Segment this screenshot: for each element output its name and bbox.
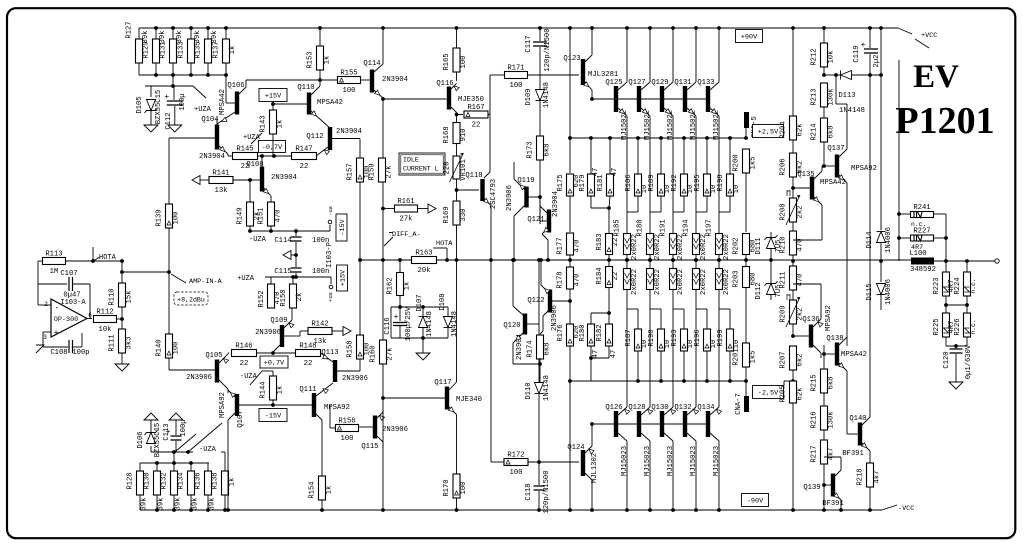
wire Q118 base [457,189,480,191]
svg-text:R172: R172 [507,452,524,460]
transistor Q121 2N3904 [547,210,551,233]
svg-text:R145: R145 [236,146,253,154]
svg-text:-ua: -ua [327,205,334,216]
svg-text:2x0R22: 2x0R22 [631,234,639,260]
svg-text:Q130: Q130 [651,404,668,412]
wire Q116 base [445,98,447,100]
wire driver bus bottom y381 [570,380,746,382]
svg-text:2x0R22: 2x0R22 [654,234,662,260]
wire Q117 collector [449,382,457,390]
resistor R193 10 [681,329,688,351]
svg-text:R146: R146 [235,343,252,351]
svg-text:R110: R110 [109,288,117,305]
resistor R170 100 [453,474,460,498]
resistor R113 1M [43,258,66,265]
wire bank bottom bus (-UZA) [140,462,209,464]
resistor R145 22 [233,153,258,160]
ground below clamp [422,338,424,349]
svg-text:R173: R173 [527,141,535,158]
node -15V box label [259,409,287,422]
svg-text:1k5: 1k5 [750,351,758,364]
resistor R155 100 [338,77,361,84]
svg-text:MJL1302: MJL1302 [591,453,599,483]
wire bank bottom bus [139,74,226,76]
svg-text:D109: D109 [525,88,533,105]
wire Q113 base [337,370,360,372]
resistor R192 10 [683,138,685,174]
svg-text:BF391: BF391 [842,450,864,458]
svg-text:R203: R203 [733,270,741,287]
svg-text:2x0R22: 2x0R22 [677,234,685,260]
capacitor C115 100n [295,255,297,267]
resistor R163 20k in rail [412,257,437,264]
wire Q115 base [359,426,374,428]
resistor R227 4R7 [899,237,910,239]
svg-text:R141: R141 [212,170,229,178]
resistor R195 10 [706,138,708,174]
svg-text:R178: R178 [557,271,565,288]
transistor Q120 2N3904 [523,314,527,335]
zener D112 7V5 [770,260,772,300]
svg-text:R143: R143 [260,115,268,132]
wire Q127 collector riser [641,82,650,90]
svg-text:1k: 1k [229,478,237,487]
resistor R181 47 [609,138,611,174]
resistor 2x0R22 lower bank [624,269,631,290]
resistor R189 10 [660,138,662,174]
svg-text:R241: R241 [913,204,930,212]
transistor Q132 MJ15023 [683,411,687,437]
resistor R134 [190,463,192,471]
resistor 2x0R22 lower bank [716,269,723,290]
svg-text:R195: R195 [694,174,702,191]
wire Q110 collector to node [311,86,320,95]
svg-text:15k: 15k [126,291,134,304]
svg-text:R209: R209 [780,305,788,322]
wire R186 staircase [637,196,639,212]
transistor Q114 2N3904 [370,70,374,93]
transistor Q137 MPSA92 [835,155,839,178]
wire Q122 collector [543,311,548,316]
wire Q125 emitter [618,108,627,116]
svg-text:R165: R165 [443,53,451,70]
svg-text:D106: D106 [137,431,145,448]
resistor R202 680 [743,234,750,255]
diode D108 1N4148 [447,307,449,316]
resistor R167 22 [455,113,459,117]
svg-text:R136: R136 [195,472,203,489]
wire Q140 collector [862,417,870,425]
svg-text:+: + [861,41,866,50]
transistor Q117 MJE340 [445,387,449,410]
wire Q139 base [822,483,826,487]
wire Q107 emitter [228,390,235,397]
svg-text:2N3904: 2N3904 [552,191,560,217]
svg-text:-15V: -15V [265,413,282,421]
transistor Q128 MJ15023 [637,411,641,437]
wire Q134 collector [710,433,719,441]
svg-text:R127: R127 [126,21,134,38]
transistor Q133 MJ15022 [706,86,710,112]
wire R112 to divider [117,318,123,320]
svg-text:R184: R184 [596,267,604,284]
wire driver column to -VCC rail [569,381,571,510]
transistor Q123 MJL3281 [581,59,585,85]
wire Q136 collector [813,345,821,353]
svg-text:R157: R157 [347,163,355,180]
wire Q120 collector [513,306,523,315]
wire Q122 emitter [543,287,548,292]
svg-text:R207: R207 [780,351,788,368]
wire Q128 collector [641,433,650,441]
svg-text:39k: 39k [175,498,183,511]
wire Q108 base [250,179,260,181]
wire Q107 collector [228,413,235,420]
svg-text:R210: R210 [780,236,788,253]
wire Q124 emitter [585,446,592,453]
svg-text:Q126: Q126 [605,404,622,412]
svg-text:BZX55C15: BZX55C15 [155,90,163,125]
svg-text:R177: R177 [557,237,565,254]
wire Q104 collector to Q106 emitter [216,118,218,125]
svg-text:1N4148: 1N4148 [426,311,434,337]
svg-text:MJ15023: MJ15023 [644,446,652,476]
svg-text:Q110: Q110 [297,84,314,92]
wire Q135 collector [814,171,822,179]
transistor Q113 2N3906 [333,360,337,382]
svg-text:D114: D114 [866,231,874,248]
wire Q111 base [273,404,312,406]
svg-text:1N4148: 1N4148 [543,82,551,108]
svg-text:R174: R174 [527,340,535,357]
wire Q117 emitter [449,407,457,415]
node IDLE CURRENT L box [399,153,445,175]
resistor R144 1k [262,370,273,372]
svg-text:39k: 39k [192,498,200,511]
zener D105 BZX55C15 [150,86,152,97]
wire Q105 collector [219,380,228,389]
svg-text:R213: R213 [811,88,819,105]
wire Q137 emitter [839,175,847,183]
svg-text:R147: R147 [295,146,312,154]
resistor R156 100 [329,405,331,428]
svg-text:2x0R22: 2x0R22 [723,269,731,295]
wire Q113 emitter from R148 [321,353,334,362]
svg-text:R183: R183 [596,233,604,250]
svg-text:0µ1/630V: 0µ1/630V [965,344,973,379]
resistor R135 [207,28,209,39]
wire Q137 collector [839,149,847,157]
svg-text:R218: R218 [857,468,865,485]
svg-text:DIFF_A-: DIFF_A- [392,231,421,239]
wire R199 staircase [729,309,731,329]
svg-text:2: 2 [44,301,48,308]
svg-text:Q137: Q137 [827,145,844,153]
svg-text:R226: R226 [954,318,962,335]
resistor R223 4R7 [943,272,950,296]
svg-text:100: 100 [460,56,468,69]
svg-text:R158: R158 [347,340,355,357]
transistor Q126 MJ15023 [614,411,618,437]
wire Q123 collector riser [585,55,592,62]
svg-text:-90V: -90V [747,498,764,506]
wire Q106 emitter diagonal [217,112,235,124]
wire Q108 collector [261,156,263,167]
svg-text:R200: R200 [733,154,741,171]
resistor R141 13k [192,176,200,185]
svg-text:1N4006: 1N4006 [885,227,893,253]
wire -UZA diagonal callout 2 [188,423,222,452]
resistor R180 47 [590,313,592,324]
svg-text:100µ: 100µ [179,93,187,110]
wire R192 staircase [683,196,685,212]
svg-text:Q118: Q118 [465,172,482,180]
svg-text:100n: 100n [312,268,329,276]
wire output branch nodes [944,259,948,263]
svg-text:22: 22 [304,360,313,368]
wire Q118 emitter [485,199,492,206]
svg-text:R155: R155 [340,70,357,78]
capacitor C113 100u [175,441,177,452]
wire Q114 collector riser [374,64,383,72]
svg-text:Q128: Q128 [628,404,645,412]
resistor R203 680 [745,260,747,267]
transistor Q118 2SC4793 [480,179,484,201]
wire R146 to R148 [257,352,297,354]
wire Q105 base [169,369,215,371]
wire Q115 to Q117 base [383,397,445,399]
svg-text:R128: R128 [127,472,135,489]
wire C107 to output node [89,284,91,319]
svg-text:R197: R197 [706,219,714,236]
wire Q130 collector [664,433,673,441]
svg-text:MJ15023: MJ15023 [690,446,698,476]
ground below R111 [121,353,123,360]
svg-text:MJ15023: MJ15023 [667,446,675,476]
node +UZA callout at -0,7V [251,133,262,144]
wire +UZA node [265,276,331,278]
svg-text:Q114: Q114 [363,60,380,68]
svg-text:R150: R150 [280,289,288,306]
svg-text:2x0R22: 2x0R22 [631,269,639,295]
resistor R142 13k [308,328,332,335]
resistor R214 6k8 [821,118,828,142]
transistor Q106 MPSA42 [235,92,239,115]
wire Q108 emitter [264,188,271,196]
wire bottom join [945,337,947,346]
resistor R140 100 [168,272,170,334]
wire Q135 emitter [814,197,822,205]
resistor R146 22 [232,350,257,357]
svg-text:62k: 62k [797,388,805,401]
svg-text:2N3904: 2N3904 [199,153,225,161]
svg-text:1N4148: 1N4148 [839,107,865,115]
wire Q138 collector [839,337,847,345]
svg-text:47: 47 [592,350,600,359]
svg-text:Q111: Q111 [299,386,316,394]
svg-text:Q140: Q140 [849,415,866,423]
resistor R143 1k [272,102,274,111]
wire R189 staircase [660,196,662,212]
svg-text:Q104: Q104 [201,116,218,124]
svg-text:220: 220 [444,162,452,175]
svg-text:R217: R217 [811,445,819,462]
ground below C112 [174,106,176,121]
svg-text:R160: R160 [370,345,378,362]
wire Q119 emitter [517,182,525,190]
wire feedback loop left [38,260,43,262]
resistor R110 15k [121,261,123,283]
transistor Q135 MPSA42 [810,177,814,200]
wire +VCC diagonal [898,28,912,34]
svg-text:R205: R205 [780,385,788,402]
resistor R128 [139,463,141,471]
wire Q133 collector riser [710,82,719,90]
svg-text:R144: R144 [260,381,268,398]
svg-text:13k: 13k [215,187,228,195]
node -90V box label [742,494,769,507]
wire Q122 base [552,300,570,302]
svg-text:Q107: Q107 [237,410,245,427]
svg-text:100: 100 [173,212,181,225]
resistor R154 1k [319,476,326,500]
svg-text:2k2: 2k2 [797,206,805,219]
svg-text:100p: 100p [72,349,89,357]
svg-text:Q123: Q123 [563,55,580,63]
wire R198 staircase [729,196,731,212]
svg-text:-0,7V: -0,7V [262,144,283,152]
resistor R150 2k [290,284,297,308]
svg-text:1k: 1k [277,386,285,395]
svg-text:47: 47 [610,350,618,359]
svg-text:R216: R216 [811,411,819,428]
resistor R213 130k [821,83,828,107]
svg-text:C118: C118 [525,483,533,500]
resistor R175 620 [569,138,571,173]
svg-text:Q109: Q109 [270,317,287,325]
svg-text:1k: 1k [324,56,332,65]
svg-text:Q116: Q116 [436,80,453,88]
resistor R201 1k5 [743,343,750,367]
trimmer VR101 220 [453,156,460,179]
svg-text:Q108: Q108 [246,161,263,169]
svg-text:R188: R188 [637,219,645,236]
resistor R171 100 [490,74,504,76]
wire Q111 emitter to Q113 collector [316,383,333,396]
svg-text:1N4148: 1N4148 [451,311,459,337]
svg-text:47: 47 [611,168,619,177]
svg-text:2x0R22: 2x0R22 [677,269,685,295]
chassis symbol [36,345,44,353]
ground above D106 [150,424,152,432]
svg-text:100µ/25V: 100µ/25V [405,306,413,341]
resistor R133 [190,28,192,39]
wire Q106 collector riser [239,87,246,94]
svg-text:R152: R152 [258,290,266,307]
capacitor C117 120p/N1500 [539,28,541,41]
svg-text:MPSA42: MPSA42 [317,99,343,107]
svg-text:R135: R135 [195,41,203,58]
svg-text:Q138: Q138 [826,335,843,343]
wire Q111 collector to R154 [316,414,322,420]
wire R145 to R147 [258,155,293,157]
svg-text:Q120: Q120 [503,322,520,330]
svg-text:C113: C113 [163,423,171,440]
wire clamp box left [390,307,392,338]
svg-text:D111: D111 [755,237,763,254]
wire Q126 emitter riser [618,407,627,415]
connector CNA-7 [744,396,749,412]
svg-text:6k8: 6k8 [544,343,552,356]
resistor R190 10 [658,329,665,351]
svg-text:Q134: Q134 [697,404,714,412]
diode D115 1N4006 [877,284,886,295]
svg-text:10: 10 [733,185,741,194]
svg-text:R194: R194 [683,219,691,236]
resistor R197 2x0R22 [716,234,723,255]
diode D113 1N4148 [822,73,826,77]
resistor R153 1k [319,28,321,46]
node HOTA tick at R163 [433,247,447,249]
svg-text:C114: C114 [274,237,291,245]
resistor R158 100 [357,335,364,359]
wire zobel feed column x898 [898,60,900,261]
svg-text:R168: R168 [443,126,451,143]
svg-text:Q129: Q129 [651,79,668,87]
svg-text:R137: R137 [213,41,221,58]
resistor R178 470 [569,260,571,267]
wire R155 to Q114 base [361,79,371,81]
svg-text:+UZA: +UZA [194,106,212,114]
wire R193 staircase [683,309,685,329]
wire op-amp inverting input [38,304,51,306]
svg-text:1k5: 1k5 [750,157,758,170]
svg-text:R198: R198 [717,174,725,191]
svg-text:MJL3281: MJL3281 [588,71,618,79]
wire Q139 collector [835,470,841,476]
svg-text:R180: R180 [579,324,587,341]
svg-text:R153: R153 [307,51,315,68]
node output terminal [995,259,999,263]
wire Q139 emitter [835,494,841,500]
wire -UZA feed [173,452,175,463]
svg-text:2N3904: 2N3904 [382,76,408,84]
resistor R204 62k [792,28,794,116]
svg-text:CNA-7: CNA-7 [735,393,743,415]
wire Q137 base [824,165,835,167]
wire Q131 emitter [687,108,696,116]
svg-text:470: 470 [797,274,805,287]
diode D107 1N4148 [422,307,424,316]
svg-text:MJE340: MJE340 [456,396,482,404]
wire Q112 emitter from R147 [316,147,328,156]
ground below D105 [150,111,152,121]
svg-text:I103-P: I103-P [326,242,334,268]
node +8,2dBu dashed label [174,292,208,305]
svg-text:R113: R113 [45,251,62,259]
svg-text:MPSA92: MPSA92 [851,165,877,173]
wire bottom -VCC bus [140,509,882,511]
svg-text:Q139: Q139 [803,484,820,492]
transistor Q107 MPSA92 [235,394,239,416]
svg-text:1k: 1k [277,120,285,129]
svg-text:10k: 10k [99,326,112,334]
wire Q133 emitter [710,108,719,116]
svg-text:n.c.: n.c. [970,319,977,334]
resistor R185 2x0R22 [624,234,631,255]
wire mid join R223/R224 [945,296,947,313]
resistor R169 330 [453,201,460,225]
